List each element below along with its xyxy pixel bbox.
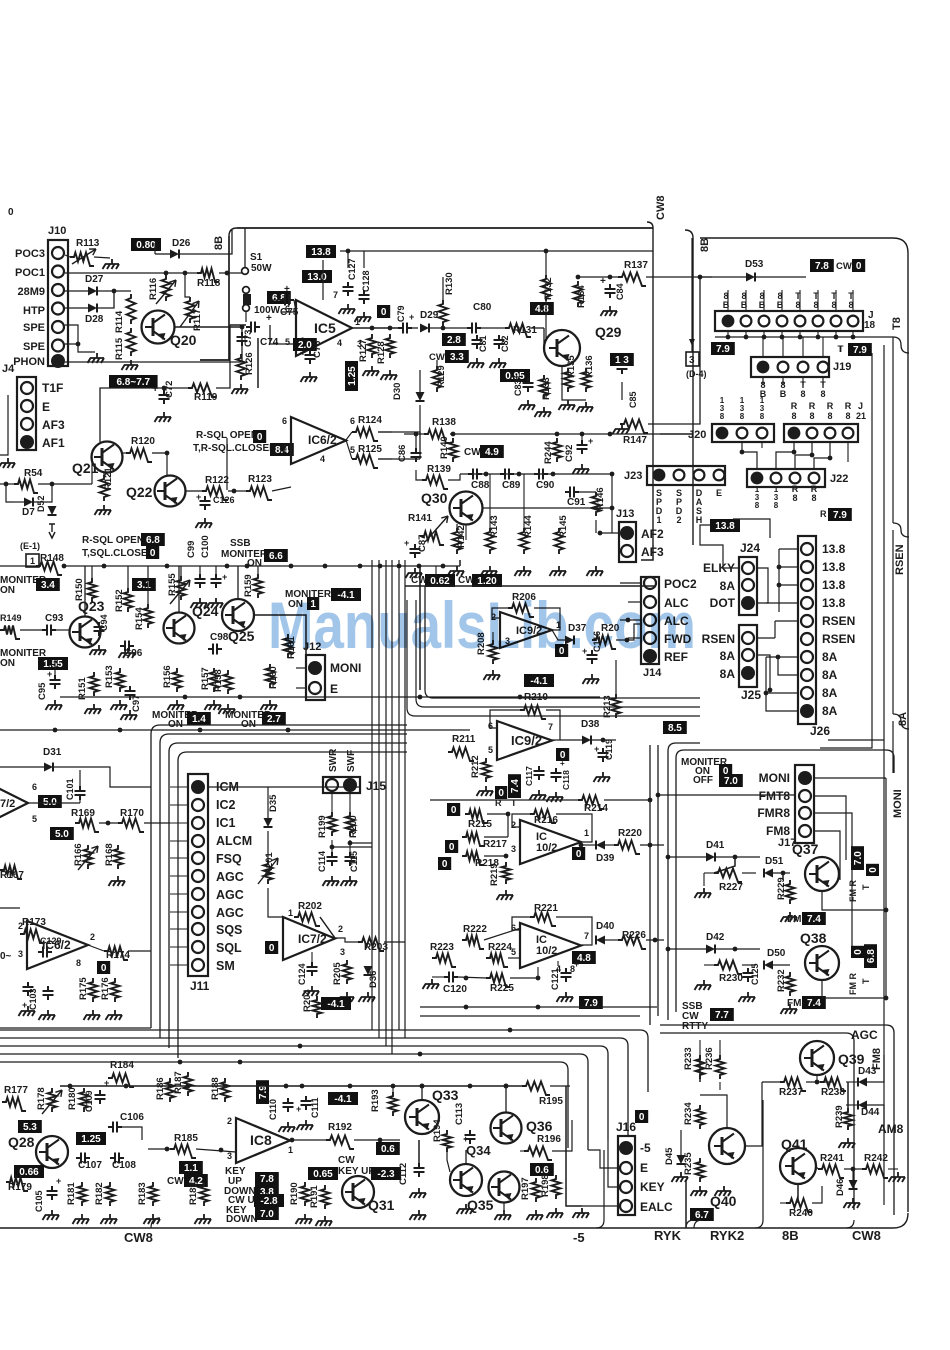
svg-text:R191: R191: [309, 1185, 320, 1208]
svg-text:J24: J24: [740, 541, 760, 555]
svg-text:7.0: 7.0: [853, 851, 864, 865]
svg-text:0: 0: [639, 1112, 645, 1123]
svg-text:-4.1: -4.1: [530, 676, 548, 687]
svg-text:13.8: 13.8: [715, 521, 735, 532]
svg-text:5: 5: [285, 337, 290, 347]
black box 13.8: [710, 519, 740, 532]
svg-text:0: 0: [101, 963, 107, 974]
svg-text:3: 3: [760, 404, 765, 413]
wire top border right block: [700, 237, 893, 239]
svg-text:2.7: 2.7: [267, 714, 281, 725]
svg-text:R168: R168: [104, 843, 115, 866]
black boxes 0 row mid: [447, 803, 460, 816]
svg-text:RTTY: RTTY: [682, 1021, 708, 1032]
svg-text:7.4: 7.4: [807, 914, 821, 925]
wire IC6 outputs to D30 column: [378, 431, 420, 433]
op-amp IC6/2 upper: [291, 417, 346, 464]
black box 4.8: [530, 302, 554, 315]
svg-text:C106: C106: [120, 1112, 144, 1123]
svg-text:D7: D7: [22, 507, 35, 518]
svg-text:FM R: FM R: [848, 880, 858, 902]
svg-text:+: +: [588, 436, 593, 446]
svg-text:R222: R222: [463, 924, 487, 935]
svg-text:1: 1: [584, 828, 589, 838]
svg-text:8: 8: [820, 389, 825, 399]
svg-text:8: 8: [800, 389, 805, 399]
black box 0 IC9 upper: [555, 644, 568, 657]
transistor Q41: [780, 1148, 816, 1184]
svg-text:8: 8: [792, 493, 797, 503]
svg-text:4.8: 4.8: [535, 304, 549, 315]
svg-text:AM8: AM8: [878, 1122, 904, 1136]
svg-text:J22: J22: [830, 473, 848, 485]
border hop RSEN: [893, 523, 909, 537]
wire IC10a fb: [512, 814, 530, 827]
wire MONI block borders: [676, 750, 894, 773]
wire IC10b bottom leads: [537, 967, 539, 978]
svg-text:ON: ON: [247, 558, 262, 569]
svg-text:3: 3: [689, 355, 695, 366]
wire J18 bottom rail: [715, 336, 893, 338]
svg-text:1: 1: [288, 1145, 293, 1155]
svg-text:6: 6: [350, 416, 355, 426]
wire border hop at x160: [151, 1218, 160, 1228]
svg-text:Q34: Q34: [466, 1143, 491, 1158]
svg-text:R194: R194: [432, 1119, 443, 1142]
svg-text:50W: 50W: [251, 263, 272, 274]
svg-text:R114: R114: [114, 310, 125, 333]
svg-text:7.4: 7.4: [510, 779, 521, 793]
svg-text:3.1: 3.1: [137, 580, 151, 591]
svg-text:7.0: 7.0: [260, 1209, 274, 1220]
svg-text:0: 0: [498, 788, 504, 799]
wire Q20 to junction: [175, 326, 242, 328]
svg-text:E: E: [716, 488, 722, 498]
wire AGC block border: [660, 1025, 894, 1215]
capacitor C115: [345, 852, 356, 866]
wire MONI pin to border: [814, 777, 886, 779]
wire PHON row: [65, 327, 242, 362]
svg-text:R217: R217: [483, 839, 507, 850]
svg-text:10/2: 10/2: [536, 842, 557, 854]
transistor Q31: [342, 1176, 374, 1208]
capacitor C120: [444, 972, 458, 983]
svg-text:7: 7: [584, 931, 589, 941]
svg-text:6.7: 6.7: [695, 1210, 709, 1221]
svg-text:R148: R148: [40, 553, 64, 564]
svg-text:+: +: [284, 284, 290, 295]
svg-text:R199: R199: [317, 815, 328, 838]
svg-text:FM: FM: [787, 998, 801, 1009]
wire Q37 emitter down: [822, 892, 886, 910]
svg-text:IC1: IC1: [216, 816, 236, 830]
transistor Q29: [544, 330, 580, 366]
svg-text:8: 8: [774, 501, 779, 510]
svg-text:AGC: AGC: [216, 906, 244, 920]
svg-text:0.6: 0.6: [535, 1165, 549, 1176]
wire IC10b fb: [512, 917, 530, 930]
svg-text:R189: R189: [188, 1182, 199, 1205]
wire inner vertical x884: [828, 345, 884, 740]
svg-text:5.3: 5.3: [23, 1122, 37, 1133]
wire left edge drop: [6, 484, 14, 502]
svg-text:0: 0: [856, 261, 862, 272]
svg-text:1.4: 1.4: [192, 714, 206, 725]
op-amp IC9/2: [497, 721, 552, 760]
svg-text:1: 1: [288, 908, 293, 918]
svg-text:R120: R120: [131, 436, 155, 447]
wire rails into center from left: [405, 585, 425, 587]
svg-text:Q28: Q28: [8, 1134, 35, 1150]
svg-text:8: 8: [76, 958, 81, 968]
svg-text:R166: R166: [73, 843, 84, 866]
svg-text:T,SQL.CLOSED: T,SQL.CLOSED: [82, 548, 155, 559]
svg-text:S1: S1: [250, 252, 263, 263]
capacitor C91: [565, 487, 579, 498]
svg-text:D31: D31: [43, 747, 62, 758]
op-amp IC9/2 upper: [500, 612, 552, 648]
wire J12 stubs: [296, 667, 306, 669]
svg-text:SPE: SPE: [23, 322, 45, 334]
svg-text:21: 21: [856, 411, 866, 421]
svg-text:R: R: [845, 401, 852, 411]
wire long vertical group mid page: [435, 566, 437, 586]
svg-text:AGC: AGC: [851, 1028, 878, 1042]
svg-text:ON: ON: [0, 585, 15, 596]
svg-text:R211: R211: [452, 734, 476, 745]
svg-text:C91: C91: [567, 497, 586, 508]
transistor Q35: [489, 1172, 520, 1203]
black box 0 IC6 lower: [97, 961, 110, 974]
wire inner vertical x872: [820, 353, 872, 748]
svg-text:D39: D39: [596, 853, 615, 864]
capacitor C73: [237, 332, 248, 346]
svg-text:2.8: 2.8: [447, 335, 461, 346]
svg-text:B: B: [777, 300, 784, 310]
svg-text:R115: R115: [114, 337, 125, 360]
svg-text:R153: R153: [104, 665, 115, 688]
svg-text:R192: R192: [328, 1122, 352, 1133]
wire J19 stubs down: [762, 377, 764, 385]
svg-text:R236: R236: [704, 1047, 715, 1070]
svg-text:D27: D27: [85, 274, 104, 285]
svg-text:R125: R125: [358, 444, 382, 455]
wires J11 left stubs: [170, 786, 188, 788]
wire mid bus verticals: [371, 560, 373, 1030]
svg-text:POC3: POC3: [15, 248, 45, 260]
svg-text:4: 4: [320, 454, 325, 464]
wire IC7 fb: [320, 917, 335, 938]
svg-text:B: B: [759, 300, 766, 310]
wire Q21 collector up: [100, 388, 120, 442]
svg-text:0.65: 0.65: [313, 1169, 333, 1180]
svg-text:R: R: [791, 401, 798, 411]
svg-text:7.8: 7.8: [815, 261, 829, 272]
svg-text:C73: C73: [243, 330, 254, 347]
black box 0.6 Q35: [530, 1163, 554, 1176]
svg-text:+: +: [22, 1000, 27, 1010]
svg-text:D41: D41: [706, 840, 725, 851]
svg-text:C100: C100: [200, 535, 211, 558]
svg-text:R116: R116: [148, 278, 159, 300]
svg-text:2: 2: [227, 1116, 232, 1126]
svg-text:5.0: 5.0: [55, 829, 69, 840]
black box 0 IC7: [265, 941, 278, 954]
ground R114 R115: [124, 360, 138, 365]
transistor Q21: [92, 442, 123, 473]
svg-text:J15: J15: [366, 779, 386, 793]
svg-text:Q20: Q20: [170, 332, 197, 348]
black box 3.1: [132, 578, 156, 591]
ground R113: [105, 259, 119, 264]
svg-text:3: 3: [740, 404, 745, 413]
svg-text:POC1: POC1: [15, 267, 45, 279]
black box 7.8 CW 0: [810, 259, 834, 272]
black box -4.1 bottom: [328, 1092, 358, 1105]
svg-text:8: 8: [809, 411, 814, 421]
transistor Q20: [142, 311, 175, 344]
svg-text:R227: R227: [719, 882, 743, 893]
black box 2.0: [293, 338, 317, 351]
svg-text:R240: R240: [789, 1208, 813, 1219]
wire right border outer: [907, 253, 909, 1212]
svg-text:SM: SM: [216, 959, 235, 973]
svg-text:3: 3: [511, 844, 516, 854]
transistor Q22: [155, 476, 186, 507]
wire long bus lines bottom band: [0, 1029, 640, 1031]
svg-text:-5: -5: [640, 1141, 651, 1155]
svg-text:D44: D44: [861, 1107, 880, 1118]
svg-text:7: 7: [548, 722, 553, 732]
wire Q30 base row: [482, 507, 612, 509]
switch S1 50W: [242, 268, 249, 275]
svg-text:Q25: Q25: [228, 628, 255, 644]
black box 0.95: [500, 369, 530, 382]
wires J20 J21 to J22: [742, 442, 757, 469]
ground cluster Q34 Q35: [459, 1204, 473, 1209]
svg-text:C92: C92: [564, 445, 575, 462]
svg-text:R-SQL OPEN: R-SQL OPEN: [82, 535, 144, 546]
wire POC1 row: [65, 272, 197, 274]
svg-text:8A: 8A: [822, 704, 838, 718]
svg-text:D53: D53: [745, 259, 764, 270]
svg-text:RSEN: RSEN: [894, 544, 906, 575]
wire S1 to border: [244, 228, 246, 267]
svg-text:3: 3: [340, 947, 345, 957]
svg-text:DOWN: DOWN: [226, 1214, 258, 1225]
svg-text:J16: J16: [616, 1120, 636, 1134]
capacitor C126: [200, 496, 211, 510]
svg-text:H: H: [696, 515, 703, 525]
ground R126: [234, 384, 248, 389]
svg-text:C120: C120: [443, 984, 467, 995]
svg-text:R138: R138: [432, 417, 456, 428]
svg-text:8B: 8B: [213, 236, 225, 250]
svg-text:R202: R202: [298, 901, 322, 912]
svg-text:+: +: [594, 744, 599, 754]
svg-text:D36: D36: [368, 971, 379, 988]
black box 1.3: [610, 353, 634, 366]
wire top-left block border 8B: [237, 227, 653, 229]
svg-text:IC6/2: IC6/2: [42, 938, 71, 952]
svg-text:0.66: 0.66: [19, 1167, 39, 1178]
svg-text:R137: R137: [624, 260, 648, 271]
border hop T8: [893, 337, 909, 353]
wire horizontal rail y434 extension: [660, 433, 693, 435]
svg-text:FM: FM: [787, 914, 801, 925]
svg-text:8: 8: [720, 412, 725, 421]
black box 0.80: [131, 238, 161, 251]
svg-text:C89: C89: [502, 480, 521, 491]
wire ICM row: [208, 786, 268, 788]
svg-text:C93: C93: [45, 613, 64, 624]
svg-text:R215: R215: [468, 819, 492, 830]
svg-text:RSEN: RSEN: [822, 632, 855, 646]
wire IC5 output: [352, 327, 398, 329]
wire J19 to J18: [762, 337, 764, 357]
black box 13.8: [306, 245, 336, 258]
svg-text:ALCM: ALCM: [216, 834, 252, 848]
svg-text:R: R: [809, 401, 816, 411]
svg-text:R184: R184: [110, 1060, 134, 1071]
wire J16 stubs: [588, 1150, 618, 1168]
svg-text:FMT8: FMT8: [759, 789, 791, 803]
black box 1.25 rotated: [345, 361, 358, 391]
capacitor C117 C118: [534, 766, 545, 780]
svg-text:+: +: [47, 669, 52, 679]
svg-text:D45: D45: [664, 1147, 675, 1165]
svg-text:R195: R195: [539, 1096, 563, 1107]
svg-text:8: 8: [760, 412, 765, 421]
svg-text:+: +: [222, 572, 227, 582]
svg-text:+: +: [266, 313, 272, 324]
svg-text:0: 0: [381, 307, 387, 318]
svg-text:T: T: [838, 344, 844, 354]
wire IC8 out: [290, 1139, 326, 1141]
svg-text:CW8: CW8: [655, 196, 667, 220]
svg-text:5: 5: [511, 947, 516, 957]
svg-text:8A: 8A: [822, 686, 838, 700]
svg-text:J19: J19: [833, 361, 851, 373]
connector J18: [715, 311, 863, 331]
svg-text:1: 1: [760, 396, 765, 405]
op-amp IC8: [236, 1118, 290, 1163]
svg-text:1.1: 1.1: [184, 1163, 198, 1174]
svg-text:3: 3: [227, 1151, 232, 1161]
svg-text:R159: R159: [243, 574, 254, 597]
svg-text:SWR: SWR: [328, 748, 339, 772]
svg-text:5: 5: [32, 814, 37, 824]
svg-text:C121: C121: [550, 968, 560, 990]
transistor Q40: [709, 1128, 745, 1164]
op-amp IC10/2 upper: [520, 820, 581, 864]
svg-text:13.0: 13.0: [307, 272, 327, 283]
svg-text:B: B: [723, 300, 730, 310]
black box 8.5: [663, 721, 687, 734]
transistor Q28: [36, 1136, 68, 1168]
svg-text:C117: C117: [524, 766, 534, 786]
connector J22: [747, 469, 825, 487]
svg-text:13.8: 13.8: [822, 542, 846, 556]
svg-text:C85: C85: [628, 391, 638, 408]
svg-text:J23: J23: [624, 470, 642, 482]
svg-text:C125: C125: [750, 963, 760, 985]
black box 7.9 rotated IC8: [256, 1080, 269, 1104]
svg-text:HTP: HTP: [23, 305, 45, 317]
svg-text:C99: C99: [186, 541, 197, 558]
black box 0.66: [14, 1165, 44, 1178]
connector J25: [739, 625, 757, 687]
wire RYK2 divider: [755, 1100, 763, 1228]
svg-text:6: 6: [32, 782, 37, 792]
wire IC9 fb: [490, 710, 520, 728]
svg-text:J11: J11: [190, 979, 210, 993]
svg-text:R196: R196: [537, 1134, 561, 1145]
svg-text:C88: C88: [471, 480, 490, 491]
svg-text:C79: C79: [396, 305, 406, 322]
svg-text:DOT: DOT: [710, 596, 736, 610]
svg-text:C95: C95: [37, 682, 48, 700]
svg-text:E: E: [42, 400, 50, 414]
black box 6.8 switch: [267, 291, 291, 304]
svg-text:T,R-SQL.CLOSED: T,R-SQL.CLOSED: [193, 443, 276, 454]
svg-text:0: 0: [150, 548, 156, 559]
svg-text:8: 8: [845, 411, 850, 421]
svg-text:0: 0: [449, 842, 455, 853]
svg-text:7: 7: [282, 444, 287, 454]
svg-text:AF1: AF1: [42, 436, 65, 450]
black box 13.0: [302, 270, 332, 283]
black box -4.1 C116: [524, 674, 554, 687]
wire J25 links: [757, 655, 770, 690]
svg-text:+: +: [574, 959, 579, 969]
wire to J11 rows: [28, 802, 80, 804]
capacitor C88: [468, 469, 482, 480]
svg-text:7.9: 7.9: [258, 1085, 269, 1099]
svg-text:CW: CW: [167, 1176, 184, 1187]
connector J21: [784, 424, 858, 442]
svg-text:+: +: [56, 1176, 61, 1186]
svg-text:R239: R239: [834, 1105, 845, 1128]
transistor Q33: [405, 1100, 439, 1134]
capacitor C125: [743, 968, 754, 982]
svg-text:C115: C115: [349, 851, 359, 872]
svg-text:13.8: 13.8: [822, 578, 846, 592]
wire Q35 Q36 emitters: [503, 1203, 505, 1210]
capacitor C89: [500, 469, 514, 480]
svg-text:3: 3: [720, 404, 725, 413]
svg-text:0.6: 0.6: [381, 1144, 395, 1155]
svg-text:8: 8: [827, 411, 832, 421]
black box -4.1 IC7: [321, 997, 351, 1010]
connector J11: [188, 774, 208, 976]
wire Q transistor stubs to rail 566: [237, 566, 239, 599]
svg-text:18: 18: [864, 320, 876, 331]
svg-text:IC6/2: IC6/2: [308, 433, 337, 447]
svg-text:28M9: 28M9: [17, 286, 45, 298]
capacitor C90: [534, 469, 548, 480]
svg-text:8A: 8A: [720, 649, 736, 663]
transistor Q23: [70, 617, 101, 648]
svg-text:T8: T8: [891, 317, 903, 330]
svg-text:8: 8: [811, 493, 816, 503]
svg-text:R223: R223: [430, 942, 454, 953]
wire J24 links: [757, 568, 768, 603]
svg-text:C110: C110: [268, 1099, 278, 1120]
svg-text:J: J: [858, 401, 863, 411]
svg-text:R141: R141: [408, 513, 432, 524]
svg-text:Q38: Q38: [800, 930, 827, 946]
